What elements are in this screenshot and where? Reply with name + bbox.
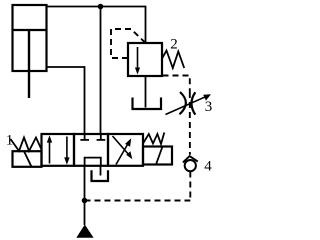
left solenoid spring — [11, 138, 42, 152]
right solenoid box — [143, 147, 172, 165]
right solenoid spring — [143, 133, 164, 145]
right position cross arrow down — [113, 136, 130, 155]
dashed line check valve down — [189, 172, 191, 201]
tank under directional valve — [92, 170, 109, 181]
center position blocked port A stub — [84, 134, 86, 140]
throttle valve 3 left arc — [180, 92, 186, 114]
svg-text:2: 2 — [170, 37, 178, 53]
check valve 4 seat — [183, 156, 198, 162]
svg-text:4: 4 — [204, 159, 212, 175]
dashed line through throttle — [189, 92, 191, 155]
right solenoid diagonal — [156, 147, 163, 165]
left position down arrow — [66, 137, 68, 161]
right position cross arrow up — [116, 142, 129, 164]
wire cylinder bottom port to valve A port — [47, 67, 85, 134]
wire P port down to pump — [84, 166, 86, 225]
svg-text:1: 1 — [6, 133, 14, 149]
relief valve 2 spring — [162, 51, 184, 69]
left position up arrow — [49, 140, 51, 164]
directional valve 1 left position box — [42, 134, 75, 166]
relief valve pilot dashed line — [111, 29, 145, 58]
dashed line bottom to pump node — [85, 200, 191, 202]
left solenoid diagonal — [24, 151, 32, 167]
svg-text:3: 3 — [205, 99, 213, 115]
check valve 4 ball — [185, 160, 196, 171]
center position blocked port B stub — [100, 134, 102, 140]
throttle valve 3 right arc — [192, 92, 196, 114]
left solenoid box — [13, 151, 42, 167]
wire cylinder top port to relief valve — [47, 7, 146, 44]
node junction dot top — [98, 4, 104, 10]
throttle valve 3 adjust arrow — [166, 96, 207, 114]
node junction dot bottom — [82, 198, 88, 204]
wire junction down to valve B port — [100, 7, 102, 135]
cylinder piston — [13, 29, 47, 31]
directional valve 1 right position box — [108, 134, 143, 166]
relief valve 2 flow arrow — [137, 47, 139, 70]
directional valve 1 center position box — [74, 134, 108, 166]
dashed line relief outlet to throttle — [163, 76, 190, 93]
pump pressure source triangle — [76, 225, 93, 238]
relief valve drain line — [145, 76, 147, 108]
tank under relief valve — [133, 98, 162, 110]
cylinder rod — [28, 30, 30, 98]
center position P-T bypass — [85, 158, 101, 166]
valve T port stub to tank — [100, 166, 102, 176]
cylinder body — [13, 5, 47, 71]
relief valve 2 body — [128, 43, 162, 76]
